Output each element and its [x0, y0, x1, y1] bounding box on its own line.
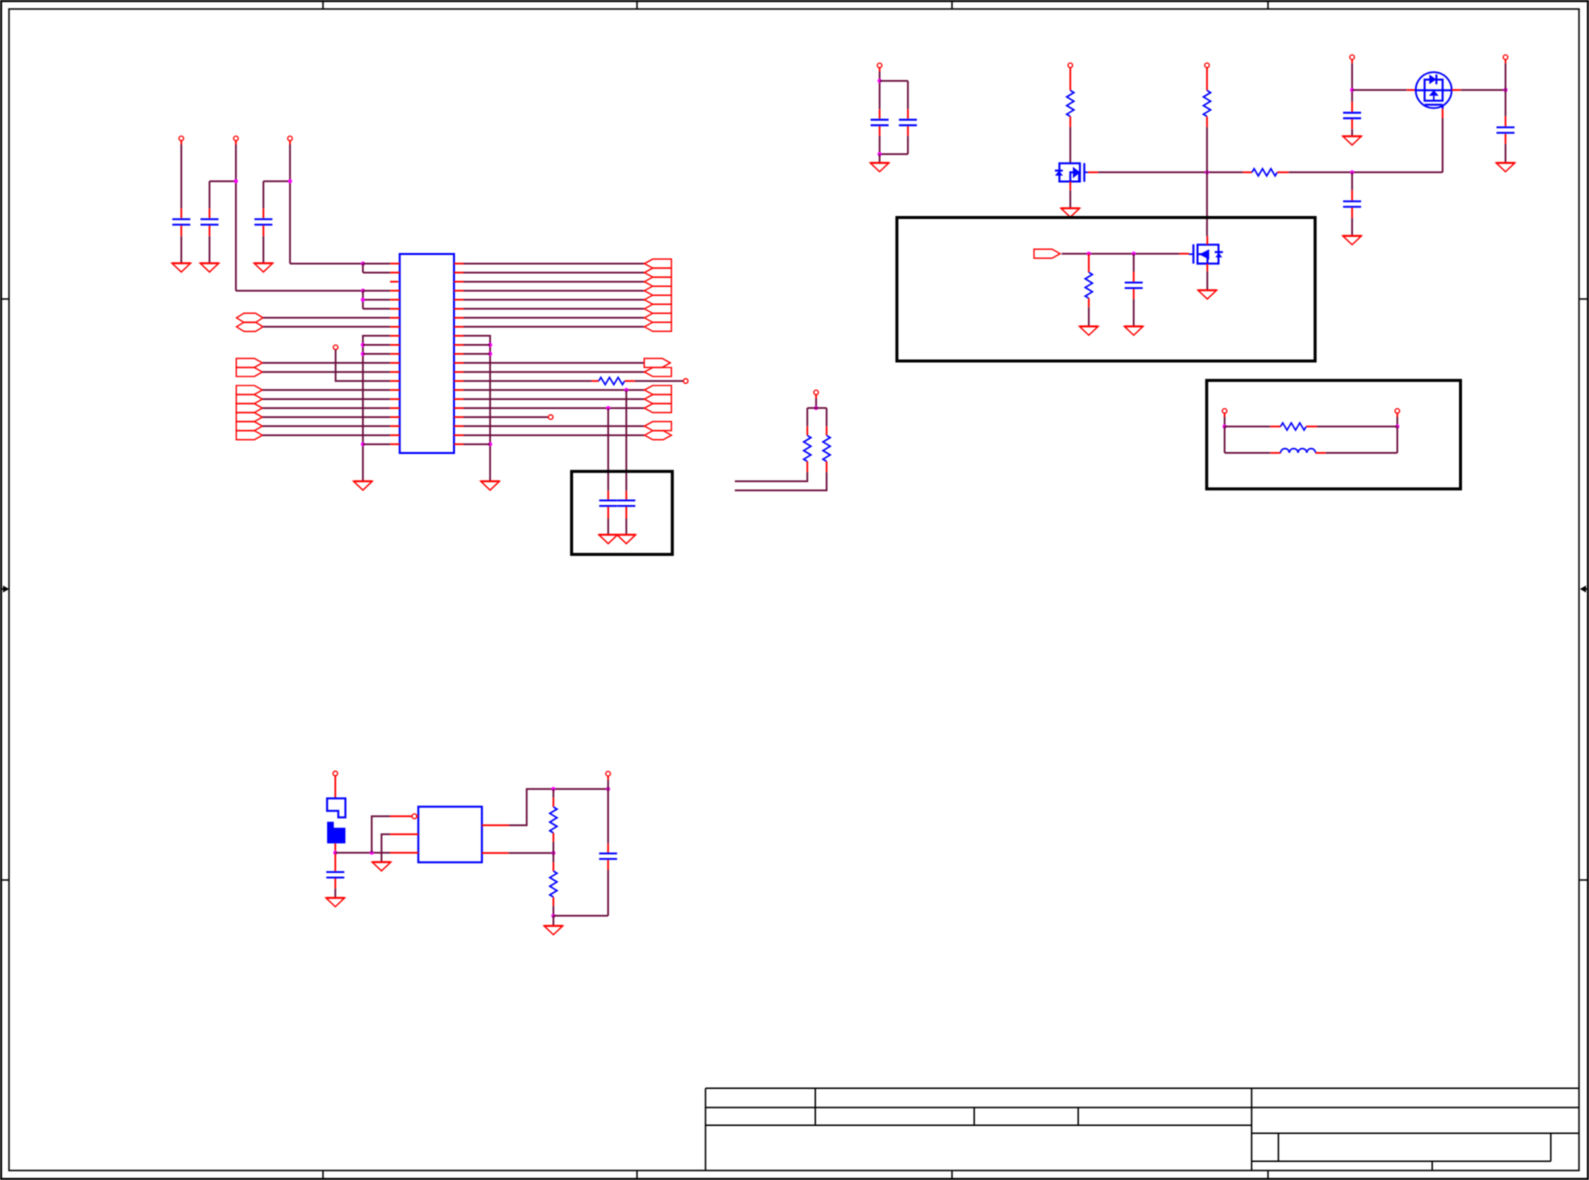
- capacitor C5: [617, 491, 635, 519]
- power terminal P7: [1350, 55, 1355, 63]
- node junction: [878, 152, 882, 156]
- wire: [1505, 144, 1507, 163]
- wire: [464, 371, 645, 373]
- port R12 (output): [644, 358, 670, 367]
- wire: [363, 344, 390, 346]
- port H (output): [236, 413, 262, 422]
- wire: [464, 353, 491, 355]
- wire: [607, 789, 609, 844]
- terminal T1: [333, 345, 338, 350]
- node junction: [606, 406, 610, 410]
- wire: [235, 145, 237, 291]
- resistor R10: [550, 862, 557, 906]
- U1 right pins: [454, 264, 464, 445]
- wire: [464, 336, 491, 482]
- wire: [263, 317, 390, 319]
- power terminal P9: [333, 771, 338, 776]
- wire: [464, 416, 549, 418]
- wire: [1442, 118, 1444, 172]
- wire: [553, 870, 608, 916]
- ground: [481, 481, 500, 490]
- node junction: [551, 787, 555, 791]
- capacitor C10: [1343, 190, 1361, 218]
- wire: [509, 789, 608, 825]
- wire: [236, 290, 363, 292]
- node junction: [551, 914, 555, 918]
- U1 left pins: [390, 264, 400, 445]
- capacitor C2: [201, 208, 219, 236]
- wire: [879, 154, 881, 163]
- wire: [1289, 171, 1443, 173]
- port R19 (input): [644, 422, 671, 431]
- port J (output): [236, 431, 262, 440]
- wire: [1326, 427, 1397, 453]
- wire: [1351, 63, 1353, 101]
- wire: [607, 519, 609, 535]
- terminal T5: [1222, 409, 1227, 417]
- wire: [552, 842, 554, 862]
- capacitor C12: [326, 854, 344, 889]
- highlight box 2: [897, 218, 1315, 362]
- wire: [209, 236, 211, 263]
- port R6 (input): [644, 304, 671, 313]
- wire: [1098, 171, 1243, 173]
- node junction: [814, 406, 818, 410]
- port D (output): [236, 368, 262, 377]
- wire: [180, 145, 182, 209]
- ground: [326, 898, 345, 907]
- node junction: [361, 442, 365, 446]
- wire: [1133, 254, 1135, 272]
- wire: [1505, 63, 1507, 116]
- wire: [735, 472, 827, 490]
- power terminal P1: [179, 136, 184, 144]
- power terminal P5: [1068, 63, 1073, 68]
- wire: [363, 264, 390, 273]
- terminal T6: [1395, 409, 1400, 417]
- node junction: [488, 352, 492, 356]
- capacitor C4: [599, 491, 617, 519]
- node junction: [288, 179, 292, 183]
- wire: [879, 72, 881, 110]
- wire: [464, 290, 645, 292]
- wire: [1206, 127, 1208, 236]
- ground: [599, 535, 618, 544]
- wire: [363, 291, 390, 309]
- port R4 (input): [644, 286, 671, 295]
- capacitor C7: [899, 109, 917, 136]
- node junction: [624, 388, 628, 392]
- ground: [544, 926, 563, 935]
- node junction: [1087, 252, 1091, 256]
- ground: [372, 862, 391, 871]
- power terminal P4: [877, 63, 882, 71]
- wire: [263, 181, 290, 208]
- port A (bidirectional): [237, 313, 264, 322]
- U2 pin 5: [482, 852, 509, 854]
- wire: [625, 519, 627, 535]
- ground: [1198, 290, 1217, 299]
- node junction: [361, 262, 365, 266]
- capacitor C11: [1125, 272, 1143, 300]
- wire: [464, 362, 645, 364]
- node junction: [361, 343, 365, 347]
- wire: [464, 272, 645, 274]
- wire: [1396, 417, 1398, 427]
- capacitor C6: [871, 109, 889, 136]
- node junction: [1132, 252, 1136, 256]
- port R8 (input): [644, 322, 671, 331]
- wire: [210, 181, 236, 208]
- wire: [1225, 427, 1271, 453]
- ground: [1343, 136, 1362, 145]
- resistor R8: [1270, 423, 1317, 430]
- wire: [735, 472, 808, 481]
- inductor L1: [1270, 449, 1326, 453]
- connector U1: [400, 254, 454, 453]
- node junction: [1350, 88, 1354, 92]
- node junction: [1350, 170, 1354, 174]
- port K (output): [1034, 249, 1060, 258]
- wire: [334, 889, 336, 898]
- power terminal P2: [234, 136, 239, 144]
- port R2 (input): [644, 268, 671, 277]
- resistor R4: [1067, 68, 1074, 127]
- wire: [262, 398, 390, 400]
- regulator U2: [418, 807, 482, 863]
- wire: [1352, 89, 1407, 91]
- power terminal P6: [1205, 63, 1210, 68]
- ground: [200, 263, 219, 272]
- wire: [1088, 307, 1090, 326]
- resistor R5: [1203, 68, 1210, 127]
- wire: [1225, 426, 1271, 428]
- power terminal P3: [288, 136, 293, 144]
- wire: [372, 816, 390, 852]
- wire: [815, 399, 817, 409]
- wire: [1069, 127, 1071, 163]
- wire: [880, 81, 908, 109]
- node junction: [606, 787, 610, 791]
- wire: [262, 371, 390, 373]
- node junction: [361, 289, 365, 293]
- wire: [552, 916, 554, 926]
- terminal T3: [548, 415, 553, 420]
- port R20 (bidirectional): [645, 431, 672, 440]
- wire: [1069, 190, 1071, 208]
- wire: [464, 380, 592, 382]
- wire: [1461, 89, 1506, 91]
- node junction: [370, 851, 374, 855]
- wire: [464, 407, 645, 409]
- wire: [1351, 172, 1353, 190]
- wire: [335, 852, 390, 854]
- resistor R1: [592, 377, 635, 384]
- wire: [180, 236, 182, 263]
- wire: [464, 344, 491, 346]
- ground: [354, 481, 373, 490]
- wire: [363, 353, 390, 355]
- ground: [172, 263, 191, 272]
- ground: [254, 263, 273, 272]
- port R17 (input): [644, 404, 671, 413]
- node junction: [488, 442, 492, 446]
- ground: [1343, 236, 1362, 245]
- ground: [617, 535, 636, 544]
- U2 pin 2: [390, 833, 418, 835]
- wire: [1224, 417, 1226, 427]
- node junction: [1503, 88, 1507, 92]
- port R5 (input): [644, 295, 671, 304]
- wire: [262, 407, 390, 409]
- node junction: [361, 298, 365, 302]
- wire: [880, 136, 908, 154]
- transistor Q2: [1179, 236, 1223, 271]
- highlight box 1: [572, 471, 673, 554]
- wire: [607, 408, 609, 491]
- wire: [363, 336, 390, 482]
- wire: [464, 434, 645, 436]
- port B (bidirectional): [237, 322, 264, 331]
- port R13 (input): [644, 368, 671, 377]
- wire: [363, 443, 390, 445]
- node junction: [234, 179, 238, 183]
- node junction: [488, 343, 492, 347]
- wire: [262, 362, 390, 364]
- wire: [262, 434, 390, 436]
- wire: [1317, 426, 1397, 428]
- terminal T2: [683, 379, 688, 384]
- wire: [1351, 129, 1353, 136]
- port R1 (input): [644, 259, 671, 268]
- resistor R7: [1085, 254, 1092, 308]
- ground: [1496, 163, 1515, 172]
- wire: [807, 408, 826, 426]
- wire: [635, 380, 684, 382]
- capacitor C3: [254, 208, 272, 236]
- port C (output): [236, 358, 262, 367]
- resistor R2: [804, 426, 811, 472]
- wire: [464, 299, 645, 301]
- fuse F1: [327, 776, 345, 853]
- port F (output): [236, 395, 262, 404]
- wire: [382, 834, 391, 862]
- wire: [464, 308, 645, 310]
- wire: [464, 443, 491, 445]
- terminal T7: [606, 771, 611, 779]
- power terminal P8: [1503, 55, 1508, 63]
- ground: [870, 163, 889, 172]
- wire: [1062, 253, 1180, 255]
- wire: [464, 263, 645, 265]
- wire: [464, 326, 645, 328]
- node junction: [1223, 424, 1227, 428]
- wire: [464, 425, 645, 427]
- port R15 (input): [644, 386, 671, 395]
- port G (output): [236, 404, 262, 413]
- capacitor C13: [599, 844, 617, 870]
- wire: [1351, 218, 1353, 236]
- wire: [464, 398, 645, 400]
- port R3 (input): [644, 277, 671, 286]
- highlight box 3: [1207, 380, 1461, 489]
- resistor R9: [550, 798, 557, 842]
- wire: [262, 236, 264, 263]
- transistor Q3: [1407, 72, 1461, 118]
- capacitor C8: [1343, 102, 1361, 130]
- U2 pin 4: [482, 824, 509, 826]
- port R7 (input): [644, 313, 671, 322]
- node junction: [1395, 424, 1399, 428]
- port E (output): [236, 386, 262, 395]
- capacitor C1: [172, 208, 190, 236]
- wire: [262, 425, 390, 427]
- ground: [1061, 208, 1080, 217]
- port R16 (input): [644, 395, 671, 404]
- wire: [263, 326, 390, 328]
- resistor R6: [1243, 169, 1289, 176]
- node junction: [878, 79, 882, 83]
- transistor Q1: [1055, 163, 1098, 190]
- wire: [1206, 271, 1208, 290]
- wire: [509, 852, 554, 854]
- ground: [1124, 326, 1143, 335]
- wire: [625, 390, 627, 491]
- wire: [464, 317, 645, 319]
- wire: [262, 389, 390, 391]
- U2 pin 3: [390, 852, 418, 854]
- wire: [289, 145, 291, 264]
- resistor R3: [823, 426, 830, 472]
- node junction: [551, 851, 555, 855]
- wire: [464, 389, 645, 391]
- wire: [464, 281, 645, 283]
- node junction: [1205, 170, 1209, 174]
- U2 pin 1 (enable, active low): [390, 814, 418, 819]
- wire: [262, 416, 390, 418]
- wire: [290, 263, 363, 265]
- wire: [336, 350, 391, 381]
- wire: [552, 789, 554, 798]
- wire: [1133, 299, 1135, 326]
- wire: [607, 780, 609, 789]
- port I (output): [236, 422, 262, 431]
- node junction: [333, 851, 337, 855]
- ground: [1080, 326, 1099, 335]
- node junction: [361, 352, 365, 356]
- capacitor C9: [1497, 116, 1515, 144]
- terminal T4: [814, 390, 819, 398]
- wire: [552, 906, 554, 916]
